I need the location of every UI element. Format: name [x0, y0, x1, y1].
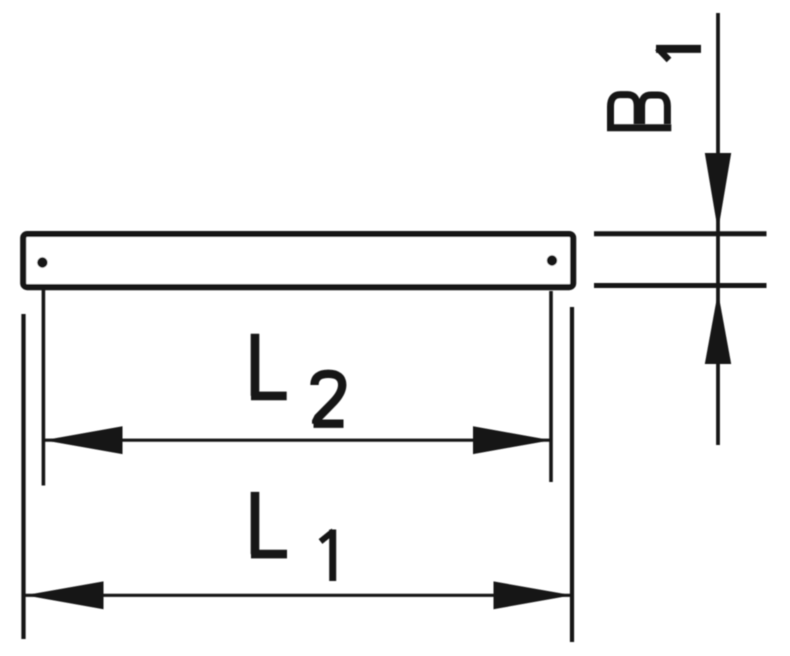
- arrowhead L1 right: [494, 581, 573, 609]
- label L of L1: [251, 492, 287, 554]
- flat bar body: [23, 234, 573, 287]
- extension line L1 right: [570, 307, 574, 642]
- extension line L2 left: [42, 290, 46, 486]
- label B1 subscript 1 (rotated digit): [656, 48, 701, 60]
- label B (rotated letter of B1): [607, 95, 671, 128]
- arrowhead L2 left: [44, 426, 123, 454]
- dimension line L1: [25, 594, 572, 597]
- extension line B1 bottom: [594, 283, 767, 288]
- dimension line B1: [716, 13, 720, 445]
- extension line L1 left: [21, 314, 25, 639]
- arrowhead B1 up: [705, 292, 731, 364]
- label L2 subscript 2: [314, 374, 344, 424]
- arrowhead B1 down: [705, 153, 731, 231]
- arrowhead L1 left: [25, 581, 104, 609]
- hole right: [547, 255, 557, 265]
- label L1 subscript 1: [321, 530, 334, 582]
- label L of L2: [251, 334, 287, 396]
- hole left: [37, 257, 47, 267]
- extension line B1 top: [594, 231, 767, 236]
- arrowhead L2 right: [473, 426, 551, 454]
- extension line L2 right: [549, 291, 553, 482]
- dimension line L2: [44, 439, 551, 442]
